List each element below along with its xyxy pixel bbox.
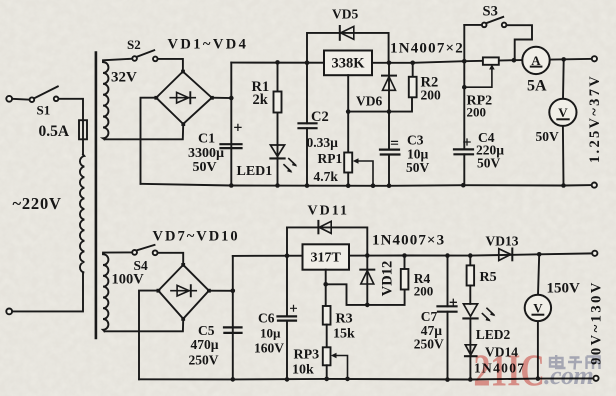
svg-text:R5: R5 [480,270,497,285]
resistor R1 [274,62,282,158]
svg-text:C1: C1 [198,132,215,147]
capacitor C7 [438,256,457,380]
svg-text:VD13: VD13 [486,234,519,249]
svg-text:317T: 317T [311,251,342,266]
diode VD11 [287,221,367,256]
node: AC input terminal bottom [6,309,12,315]
capacitor C4 [454,139,473,154]
node: output terminal + top [592,56,597,61]
voltmeter PV2 150V [525,254,551,378]
wire C5 vertical line [232,256,234,380]
wire top ground rail [141,184,593,186]
svg-text:V: V [558,105,568,120]
wire bridge right to C1 line [212,97,232,99]
svg-text:50V: 50V [406,160,430,175]
svg-text:100V: 100V [112,272,145,288]
svg-text:RP3: RP3 [294,348,320,363]
wire 100V top to S4 [103,252,132,253]
svg-text:RP1: RP1 [318,151,343,166]
potentiometer RP2 [464,57,499,87]
bridge rectifier VD7~VD10 [157,263,211,321]
regulator U2 317T [303,244,350,269]
wire bottom positive rail [233,253,593,256]
wire adj node horizontal [348,97,412,111]
switch S3 [464,17,532,60]
potentiometer RP3 [323,347,348,379]
wire S2 to bridge top [158,59,183,70]
svg-text:S2: S2 [127,37,141,52]
svg-text:VD6: VD6 [356,94,382,109]
capacitor C5 [224,327,242,333]
switch S4 [132,245,157,255]
diode VD5 [307,26,389,63]
fuse 0.5A [79,120,87,154]
node: output terminal - top [592,183,597,188]
junction dots top circuit [229,57,566,188]
resistor R3 [323,306,331,347]
LED LED2 [463,304,495,356]
svg-text:C3: C3 [407,133,424,148]
svg-text:C5: C5 [198,323,215,338]
voltmeter PV1 50V [549,59,576,185]
wire 338K adj pin down [347,75,349,151]
wire primary bottom to lower terminal [12,272,83,311]
svg-text:50V: 50V [477,156,501,171]
svg-text:32V: 32V [111,70,137,86]
capacitor C2 [299,123,317,128]
transformer T secondary winding 100V [103,254,108,331]
svg-text:0.33µ: 0.33µ [307,135,339,150]
svg-text:4.7k: 4.7k [314,169,339,184]
svg-text:R3: R3 [336,312,353,327]
svg-text:A: A [531,53,541,68]
svg-text:50V: 50V [193,160,217,175]
potentiometer RP1 [344,153,373,186]
svg-text:10µ: 10µ [260,326,281,341]
node: AC input terminal top [6,96,12,102]
resistor R5 [467,256,475,304]
svg-text:S3: S3 [483,4,498,20]
svg-text:C6: C6 [258,311,275,326]
wire bridge left to ground rail [141,98,157,184]
capacitor C4 branch with S3 left leg [463,25,465,185]
wire bridge2 left to ground rail [139,291,158,380]
capacitor C6 branch with VD11 left leg [286,227,288,379]
LED LED1 [270,145,297,186]
svg-text:50V: 50V [536,129,560,144]
wire 32V bottom to bridge bottom [105,125,184,139]
svg-text:200: 200 [421,88,442,103]
svg-text:338K: 338K [331,56,365,72]
capacitor C1 [221,124,242,148]
wire terminal to S1 [12,98,29,101]
svg-text:21IC: 21IC [474,346,545,396]
svg-text:200: 200 [414,284,434,299]
svg-text:1N4007×3: 1N4007×3 [372,233,445,249]
svg-text:250V: 250V [189,353,219,368]
transformer T primary winding [80,155,84,273]
svg-text:V: V [533,301,543,316]
capacitor C6 [278,305,297,320]
wire C1 vertical line [230,63,232,186]
resistor R4 [401,256,409,290]
svg-text:3300µ: 3300µ [188,146,224,161]
ammeter PA 5A [522,47,549,74]
svg-text:VD1~VD4: VD1~VD4 [168,37,249,53]
svg-text:VD11: VD11 [308,204,349,219]
svg-text:0.5A: 0.5A [39,123,70,140]
capacitor C2 branch [306,63,308,186]
wire bottom ground rail [139,378,594,379]
wire 32V top to S2 [103,59,132,62]
switch S1 [30,86,59,102]
svg-text:VD5: VD5 [332,7,358,22]
svg-text:90V~130V: 90V~130V [589,280,605,365]
svg-text:15k: 15k [333,327,355,342]
svg-text:VD7~VD10: VD7~VD10 [153,229,240,245]
diode VD12 [360,256,374,305]
node: output terminal - bottom [593,376,598,381]
svg-text:250V: 250V [414,337,444,352]
svg-text:C7: C7 [421,309,438,324]
diode VD6 [382,63,396,112]
resistor R2 [409,63,417,98]
diode VD14 [465,345,477,380]
capacitor C3 [380,112,399,186]
svg-text:C2: C2 [311,109,329,125]
svg-text:S1: S1 [37,103,51,118]
svg-text:.com: .com [544,361,593,390]
svg-text:LED2: LED2 [476,327,511,342]
svg-text:1.25V~37V: 1.25V~37V [587,74,603,163]
junction dots bottom circuit [231,252,542,382]
svg-text:LED1: LED1 [237,164,273,179]
transformer T core [95,53,98,339]
svg-text:10k: 10k [292,363,314,378]
wire S4 to bridge top [158,253,184,264]
wire bridge2 right to C5 line [209,290,233,292]
wire adj jog to VD12 and R4 [326,284,405,305]
svg-text:150V: 150V [547,281,581,297]
transformer T secondary winding 32V [103,62,108,139]
svg-text:470µ: 470µ [191,337,219,352]
svg-text:2k: 2k [253,92,269,108]
wire 100V bottom to bridge bottom [105,320,184,331]
svg-text:~220V: ~220V [13,194,62,213]
node: output terminal + bottom [592,251,597,256]
wire S1 to fuse [59,99,84,120]
svg-text:1N4007×2: 1N4007×2 [390,41,464,57]
svg-text:5A: 5A [527,78,547,95]
svg-text:200: 200 [467,105,487,120]
svg-text:VD12: VD12 [380,261,396,296]
wire 317T adj pin down [325,270,327,306]
bridge rectifier VD1~VD4 [154,70,213,126]
regulator U1 338K [324,51,372,76]
watermark dianziwang glyphs [550,355,600,370]
wire top positive rail [231,59,594,63]
svg-text:160V: 160V [254,341,284,356]
diode VD13 [499,249,513,261]
switch S2 [132,50,157,61]
